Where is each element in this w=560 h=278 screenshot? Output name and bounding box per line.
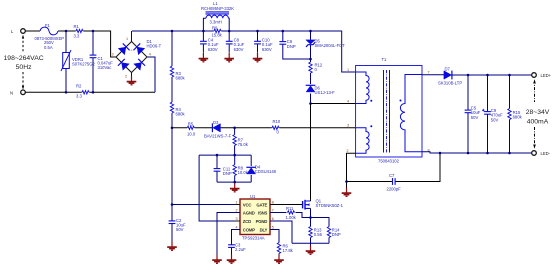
- svg-text:28~34V: 28~34V: [526, 109, 550, 116]
- svg-text:310Vac: 310Vac: [98, 65, 112, 70]
- svg-text:N: N: [10, 90, 13, 95]
- node bottom rail: [233, 181, 236, 184]
- svg-text:3: 3: [112, 53, 114, 57]
- node bus C4: [202, 30, 205, 33]
- terminal L: [11, 29, 25, 34]
- svg-text:50V: 50V: [471, 115, 479, 120]
- node pin2/C7: [345, 180, 348, 183]
- svg-text:10.0: 10.0: [187, 131, 196, 136]
- capacitor C4: [200, 31, 219, 53]
- ground C2: [167, 242, 177, 251]
- svg-text:R5: R5: [188, 121, 194, 126]
- svg-text:D7: D7: [445, 67, 451, 72]
- svg-text:1: 1: [126, 37, 128, 41]
- node bus D5: [309, 30, 312, 33]
- node VCC junction: [171, 203, 174, 206]
- svg-text:RCH895NP-332K: RCH895NP-332K: [201, 6, 234, 11]
- wire ZCD box bottom rail: [217, 181, 251, 184]
- svg-text:0.56: 0.56: [314, 232, 323, 237]
- ground C10: [253, 53, 263, 62]
- svg-text:AGND: AGND: [243, 210, 255, 215]
- svg-text:R10: R10: [273, 119, 281, 124]
- svg-text:F1: F1: [45, 23, 51, 28]
- transistor Q1: [303, 199, 344, 210]
- ground sense: [306, 246, 316, 255]
- node N-VDR1: [65, 91, 68, 94]
- svg-text:HD06-T: HD06-T: [147, 44, 162, 49]
- diode D4: [246, 155, 276, 182]
- svg-text:ISNS: ISNS: [258, 210, 268, 215]
- svg-text:7: 7: [272, 208, 274, 212]
- wire output bottom rail: [422, 152, 534, 153]
- svg-text:SMA2004L-FCT: SMA2004L-FCT: [315, 43, 346, 48]
- inductor L1: [201, 1, 234, 31]
- terminal LED-: [532, 151, 551, 156]
- resistor R4: [170, 102, 185, 128]
- svg-text:D3: D3: [213, 120, 219, 125]
- ground C4: [199, 53, 209, 62]
- svg-text:680k: 680k: [176, 112, 186, 117]
- wire output top rail: [451, 74, 534, 76]
- svg-text:630V: 630V: [234, 47, 244, 52]
- svg-text:GATE: GATE: [256, 202, 267, 207]
- svg-text:50V: 50V: [491, 117, 499, 122]
- node D3/R7/R10: [233, 127, 236, 130]
- varistor VDR1: [61, 31, 95, 92]
- secondary winding 7-8: [400, 75, 422, 152]
- wire bridge bottom stub: [131, 73, 133, 77]
- node bus C6: [282, 30, 285, 33]
- svg-text:3: 3: [347, 124, 349, 128]
- capacitor C8: [226, 31, 245, 53]
- svg-text:8: 8: [272, 200, 274, 204]
- transformer T1: [356, 57, 422, 164]
- svg-text:2200pF: 2200pF: [387, 187, 402, 192]
- svg-text:50V: 50V: [176, 227, 184, 232]
- svg-text:DNP: DNP: [223, 171, 232, 176]
- capacitor C9 electrolytic: [482, 75, 503, 153]
- svg-text:630V: 630V: [208, 47, 218, 52]
- svg-text:+: +: [130, 47, 133, 52]
- svg-text:750843102: 750843102: [378, 159, 400, 164]
- input spec text: [4, 35, 44, 90]
- bridge rectifier D1: [112, 37, 162, 79]
- capacitor C10: [254, 31, 273, 53]
- node bottom R15: [508, 152, 511, 155]
- node bus C10: [256, 30, 259, 33]
- terminal LED+: [532, 73, 552, 78]
- node R4/R5/VCC rail: [171, 127, 174, 130]
- svg-text:COMP: COMP: [243, 227, 255, 232]
- svg-text:3.3: 3.3: [76, 93, 82, 98]
- svg-text:C7: C7: [389, 173, 395, 178]
- wire AGND: [217, 213, 240, 255]
- terminal N: [10, 90, 25, 95]
- svg-text:680k: 680k: [513, 115, 523, 120]
- ground primary: [342, 188, 352, 197]
- svg-text:1: 1: [347, 68, 349, 72]
- aux winding 3-2: [356, 128, 370, 153]
- capacitor C3: [228, 230, 246, 255]
- node clamp C6/R12: [309, 58, 312, 61]
- wire charge line y=128: [172, 127, 356, 129]
- ground R6: [274, 255, 284, 264]
- capacitor C5: [465, 75, 481, 153]
- diode D7: [438, 67, 462, 86]
- svg-text:R11: R11: [286, 206, 294, 211]
- svg-text:4: 4: [347, 99, 349, 103]
- capacitor C1: [90, 31, 114, 92]
- svg-text:400mA: 400mA: [527, 119, 549, 126]
- svg-text:17.8k: 17.8k: [283, 248, 294, 253]
- wire L line to bridge: [25, 31, 116, 57]
- node top R15: [508, 74, 511, 77]
- node top C5: [467, 74, 470, 77]
- svg-text:7: 7: [428, 71, 430, 75]
- resistor R6: [270, 230, 294, 255]
- svg-text:2: 2: [347, 149, 349, 153]
- svg-text:VCC: VCC: [243, 202, 252, 207]
- node bottom C9: [486, 152, 489, 155]
- ground ZCD box: [230, 183, 240, 192]
- svg-text:DNP: DNP: [332, 232, 341, 237]
- svg-text:S07K275G2: S07K275G2: [72, 62, 95, 67]
- capacitor C2: [169, 205, 186, 242]
- wire ZCD to U1 pin3: [199, 155, 240, 221]
- resistor R7: [233, 128, 249, 155]
- output spec: [526, 79, 550, 148]
- wire VCC to U1 pin1: [172, 204, 240, 206]
- fuse F1: [35, 23, 65, 50]
- svg-text:L: L: [11, 29, 14, 34]
- wire main bus: [132, 31, 356, 72]
- ground bridge: [127, 76, 137, 85]
- svg-text:US1J-13-F: US1J-13-F: [315, 90, 336, 95]
- primary winding 1-4: [356, 72, 370, 104]
- svg-text:LED-: LED-: [541, 151, 551, 156]
- svg-text:ZCD: ZCD: [243, 219, 251, 224]
- svg-text:6: 6: [272, 217, 274, 221]
- svg-text:2: 2: [236, 208, 238, 212]
- capacitor C7: [347, 153, 441, 192]
- svg-text:5: 5: [272, 225, 274, 229]
- capacitor C11 (DNP): [214, 155, 232, 182]
- node C7/output rail: [439, 152, 442, 155]
- resistor R9: [212, 26, 223, 38]
- svg-text:BAV21WS-7-F: BAV21WS-7-F: [204, 133, 232, 138]
- wire secondary top to D7: [422, 74, 445, 76]
- wire sense bottom rail: [292, 242, 329, 244]
- wire ZCD box top rail: [199, 154, 251, 156]
- node ISNS/source: [309, 216, 312, 219]
- svg-text:CDSU4148: CDSU4148: [255, 169, 277, 174]
- node L-VDR1: [65, 30, 68, 33]
- wire bridge top to bus: [131, 31, 133, 42]
- capacitor C6 (DNP snubber): [279, 31, 310, 59]
- svg-text:STD5NK50Z-1: STD5NK50Z-1: [316, 203, 344, 208]
- wire drain to transformer pin 4: [311, 103, 356, 105]
- resistor R12: [309, 59, 323, 80]
- svg-text:2: 2: [125, 75, 127, 79]
- resistor R2: [76, 84, 89, 99]
- svg-text:R9: R9: [212, 26, 218, 31]
- resistor R10: [272, 119, 281, 135]
- svg-text:0: 0: [277, 130, 280, 135]
- node N-C1: [92, 91, 95, 94]
- wire T1 pin2 to gnd: [347, 153, 356, 188]
- svg-text:TPS92314A: TPS92314A: [242, 235, 265, 240]
- node bottom C5: [467, 152, 470, 155]
- wire sense branch: [311, 218, 330, 227]
- node rail C11: [216, 154, 219, 157]
- ground C3: [227, 255, 237, 264]
- resistor R13: [309, 227, 323, 238]
- svg-text:680k: 680k: [176, 76, 186, 81]
- resistor R8: [233, 155, 249, 182]
- svg-text:4: 4: [149, 53, 151, 57]
- node L-C1: [92, 30, 95, 33]
- resistor R11 (ISNS): [270, 206, 311, 220]
- svg-text:1: 1: [236, 200, 238, 204]
- svg-text:50Hz: 50Hz: [16, 64, 32, 71]
- node bus R3: [171, 30, 174, 33]
- resistor R3: [170, 31, 185, 102]
- svg-text:DNP: DNP: [287, 44, 296, 49]
- diode D6: [306, 80, 335, 104]
- svg-text:SK310B-LTP: SK310B-LTP: [438, 81, 462, 86]
- op-amp U1 TPS92314A: [235, 194, 276, 241]
- svg-text:3: 3: [236, 217, 238, 221]
- wire drain rail: [310, 104, 312, 200]
- svg-text:2.2uF: 2.2uF: [235, 247, 246, 252]
- node bus C8: [228, 30, 231, 33]
- svg-text:R2: R2: [76, 84, 82, 89]
- wire N line: [25, 91, 155, 93]
- svg-text:0: 0: [315, 67, 318, 72]
- svg-text:1.00k: 1.00k: [286, 215, 297, 220]
- svg-text:15.8k: 15.8k: [212, 33, 223, 38]
- svg-text:3.3: 3.3: [74, 33, 80, 38]
- wire PGND: [270, 221, 292, 243]
- svg-text:0.5A: 0.5A: [44, 45, 53, 50]
- diode D5 clamp: [306, 31, 345, 59]
- core: [384, 70, 390, 153]
- wire bridge right to N: [147, 57, 155, 92]
- wire VCC rail down: [171, 128, 173, 205]
- svg-text:630V: 630V: [262, 47, 272, 52]
- diode D3: [204, 120, 232, 139]
- wire GATE: [270, 204, 303, 206]
- svg-text:4: 4: [236, 225, 238, 229]
- node drain / primary pin4: [309, 102, 312, 105]
- svg-text:R1: R1: [74, 24, 80, 29]
- svg-text:75.0k: 75.0k: [238, 142, 249, 147]
- svg-text:U1: U1: [250, 194, 256, 199]
- wire Q1 source rail: [310, 210, 312, 246]
- svg-text:198~264VAC: 198~264VAC: [4, 55, 44, 62]
- resistor R14 (DNP): [327, 227, 341, 244]
- ground C8: [224, 53, 234, 62]
- svg-text:DLY: DLY: [260, 227, 268, 232]
- node rail R7: [233, 154, 236, 157]
- svg-text:LED+: LED+: [541, 73, 552, 78]
- svg-text:10.0k: 10.0k: [238, 170, 249, 175]
- ground AGND: [212, 255, 222, 264]
- node top C9: [486, 74, 489, 77]
- resistor R1: [74, 24, 84, 38]
- resistor R15: [508, 75, 523, 153]
- svg-text:PGND: PGND: [256, 219, 268, 224]
- resistor R5: [187, 121, 196, 136]
- svg-text:T1: T1: [382, 57, 388, 62]
- svg-text:3.3mH: 3.3mH: [210, 19, 222, 24]
